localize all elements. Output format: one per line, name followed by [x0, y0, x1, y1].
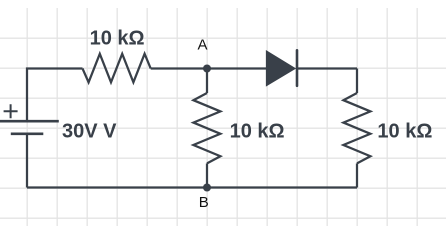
svg-text:B: B — [199, 194, 209, 211]
node B junction dot — [203, 184, 211, 192]
diode D1 triangle — [267, 52, 294, 85]
wire right branch bottom — [356, 163, 358, 187]
wire battery minus to bottom-left corner — [26, 135, 28, 188]
resistor R1 10 kΩ (horizontal) — [83, 54, 151, 83]
wire R2 down to node B — [206, 163, 208, 187]
wire node A down to R2 — [206, 69, 208, 94]
battery V positive long plate — [0, 120, 59, 123]
battery V negative short plate — [11, 133, 44, 136]
bottom wire B row — [27, 186, 357, 188]
node A junction dot — [203, 65, 211, 73]
wire right branch top — [356, 69, 358, 94]
svg-text:10 kΩ: 10 kΩ — [230, 120, 285, 142]
svg-text:10 kΩ: 10 kΩ — [377, 120, 432, 142]
svg-text:30V V: 30V V — [62, 120, 117, 142]
resistor R2 10 kΩ (middle vertical) — [193, 93, 220, 163]
diode D1 cathode bar — [296, 50, 299, 86]
battery plus sign — [4, 104, 18, 118]
wire R1 to diode anode — [151, 67, 267, 69]
svg-text:A: A — [198, 36, 208, 53]
wire diode to top-right corner — [297, 67, 357, 69]
wire top-left: battery to R1 — [27, 69, 83, 121]
resistor R3 10 kΩ (right vertical) — [343, 93, 370, 163]
svg-text:10 kΩ: 10 kΩ — [90, 28, 145, 50]
